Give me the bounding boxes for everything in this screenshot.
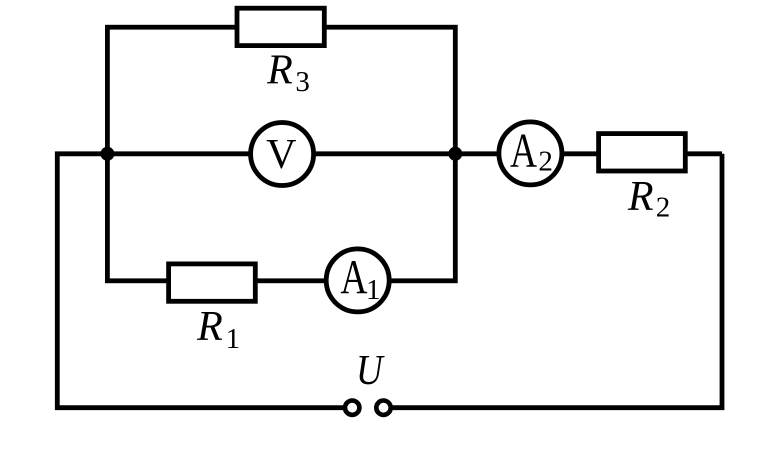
svg-text:1: 1 bbox=[226, 323, 241, 355]
svg-text:R: R bbox=[196, 304, 223, 350]
svg-text:2: 2 bbox=[538, 146, 553, 178]
svg-text:R: R bbox=[627, 174, 654, 220]
svg-text:A: A bbox=[340, 250, 367, 304]
svg-text:U: U bbox=[356, 347, 385, 394]
svg-text:V: V bbox=[266, 132, 296, 178]
svg-text:3: 3 bbox=[295, 66, 310, 98]
svg-text:2: 2 bbox=[656, 192, 671, 224]
svg-text:1: 1 bbox=[366, 274, 381, 306]
svg-text:A: A bbox=[510, 124, 537, 178]
svg-text:R: R bbox=[266, 48, 293, 94]
